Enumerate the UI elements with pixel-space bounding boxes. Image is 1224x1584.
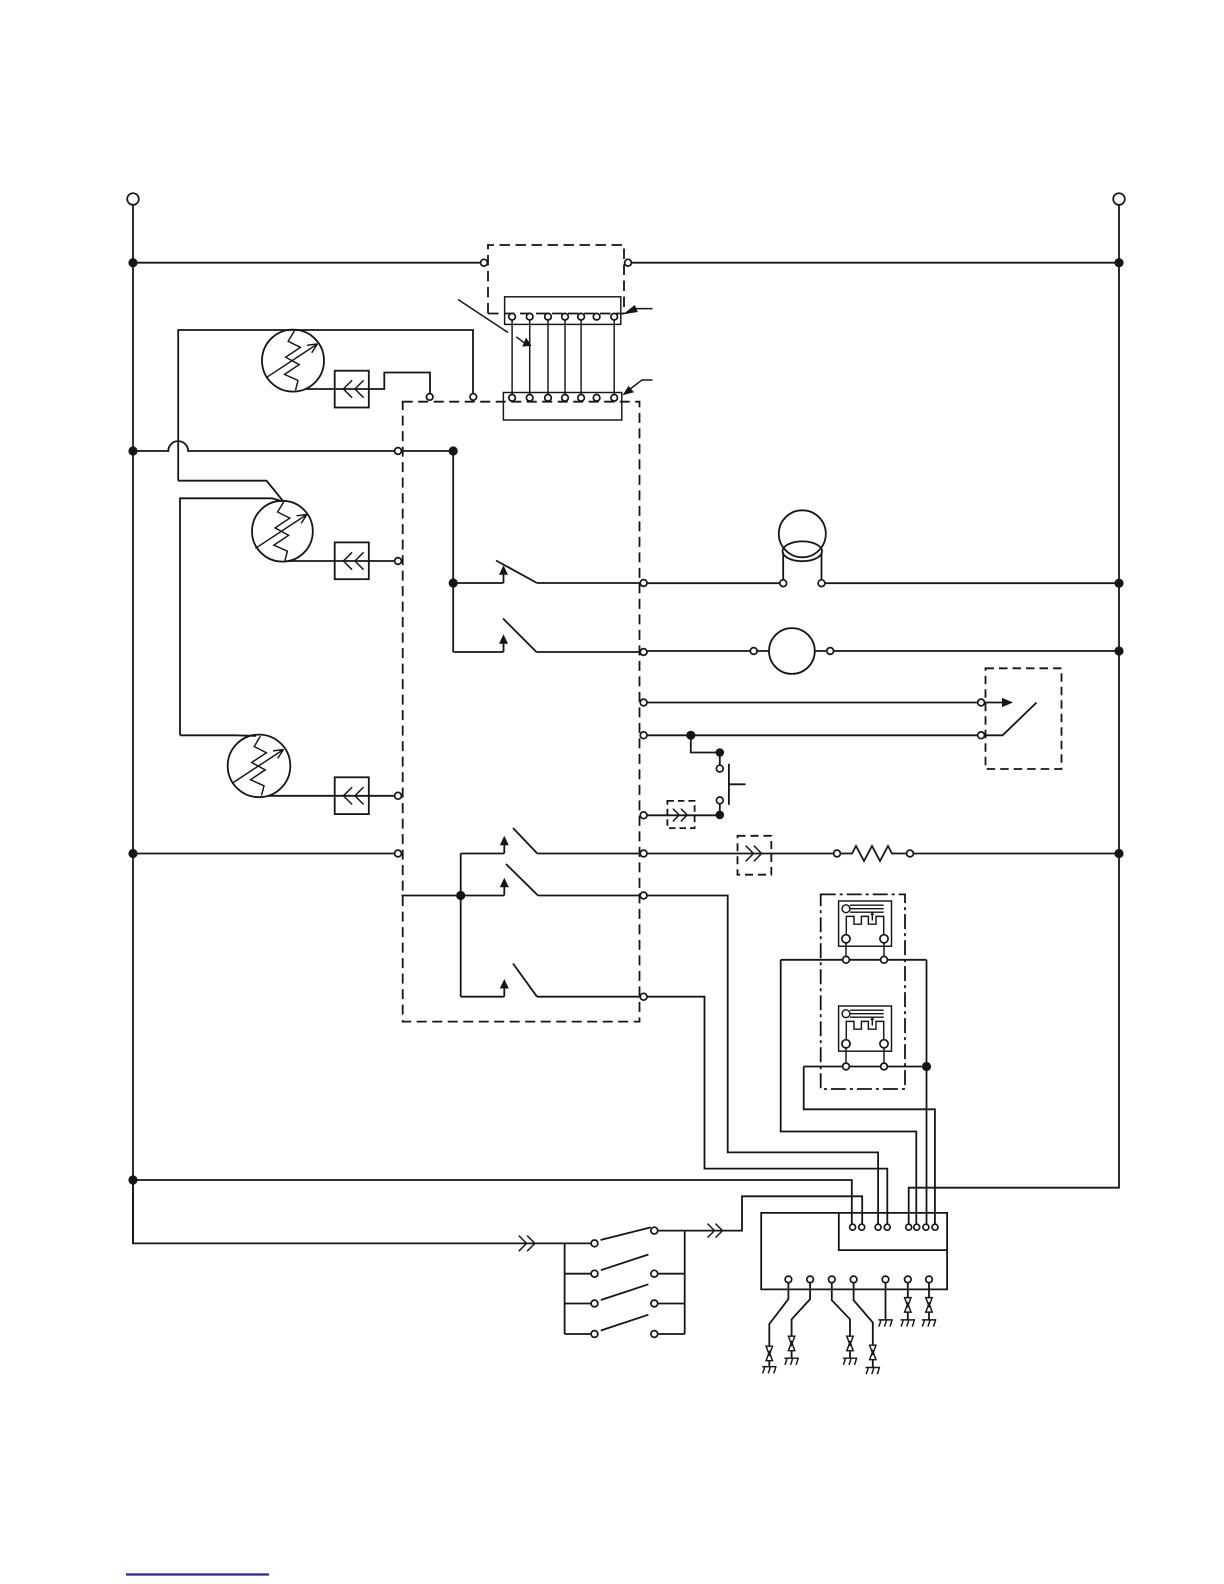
wire: left bus vertical — [132, 205, 134, 1244]
wire: S5 output to terminal u4 — [647, 997, 887, 1224]
terminal into thermostat box (TH2) — [395, 558, 402, 565]
node: right bus junction motor row — [1114, 646, 1123, 655]
terminal u8 — [932, 1224, 938, 1230]
hyperlink underline (blue) — [126, 1573, 269, 1575]
wire: K3 output to thermostat box — [369, 795, 395, 797]
connector housing CN1 (dashed cover, top) — [488, 245, 624, 314]
resistor R1 — [840, 846, 906, 861]
lower terminal d4 — [850, 1276, 857, 1283]
wire: interconnect pin2 — [529, 320, 531, 394]
lower terminal d7 — [926, 1276, 933, 1283]
terminal u7 — [923, 1224, 929, 1230]
damper box (dashed) — [986, 668, 1062, 769]
lead 4 wire — [854, 1283, 881, 1375]
motor M1 (fan motor) — [750, 628, 833, 674]
wire: interconnect pin3 — [547, 320, 549, 394]
lead 5 wire — [878, 1283, 893, 1327]
heater assembly box (chain line) — [821, 894, 905, 1089]
terminal H2 left — [843, 1063, 850, 1070]
connector block upper (7-pin) — [505, 297, 621, 325]
lower terminal d5 — [882, 1276, 889, 1283]
lead 2 wire — [784, 1283, 810, 1365]
leader arrow (harness pointer) — [516, 337, 531, 347]
lead 7 wire — [922, 1283, 937, 1327]
terminal on dashed cover (right) — [625, 259, 632, 266]
wire: pushbutton branch — [691, 735, 720, 752]
thermal switch S2 — [453, 619, 640, 653]
node: junction lower switches — [456, 891, 465, 900]
node: left bus junction at lower row wire — [128, 849, 137, 858]
thermistor TH3 (sensor circle) — [228, 735, 291, 798]
node: pushbutton top junction — [716, 748, 725, 757]
wire: sensor harness top run — [178, 330, 473, 481]
thermal switch S3 — [461, 828, 641, 854]
thermal switch S4 — [461, 864, 641, 896]
terminal H1 left — [843, 956, 850, 963]
lower terminal d2 — [807, 1276, 814, 1283]
terminal S3 out — [640, 850, 647, 857]
terminal H1 right — [881, 956, 888, 963]
terminal above dashed box (left) — [426, 394, 433, 401]
damper switch arrow — [985, 698, 1014, 707]
lead 1 wire — [762, 1283, 788, 1374]
terminal into thermostat box (main row) — [395, 448, 402, 455]
wire: interconnect pin7 — [613, 320, 615, 394]
connector box K2 (chevron coupler) — [335, 542, 369, 579]
wire: interconnect pin4 — [564, 320, 566, 394]
wire: resistor row left — [647, 853, 834, 855]
wire: resistor to right bus — [913, 853, 1119, 855]
lead 6 wire — [901, 1283, 916, 1327]
terminal S4 out — [640, 892, 647, 899]
node: junction row4 — [686, 731, 695, 740]
terminal S2 out — [640, 649, 647, 656]
thermostat assembly box (large dashed) — [403, 402, 640, 1022]
wire: bottom feed to door switch — [133, 1180, 591, 1243]
terminal R1 (right supply terminal) — [1113, 193, 1125, 205]
wire: K2 output to thermostat box — [369, 560, 395, 562]
pushbutton PB1 — [716, 753, 745, 815]
wire: feed to TH3 — [180, 734, 256, 737]
wire: interconnect pin1 — [511, 320, 513, 394]
wire: motor row — [647, 650, 1119, 652]
wire: TH2 to connector box K2 — [288, 560, 335, 562]
terminal row3 out — [640, 699, 647, 706]
connector box K3 (chevron coupler) — [335, 777, 369, 814]
terminal board TB1 — [761, 1213, 947, 1290]
thermistor TH1 (sensor circle) — [262, 330, 324, 392]
node: right bus junction resistor row — [1114, 849, 1123, 858]
connector box K1 (chevron coupler) — [335, 371, 369, 408]
terminal row4 right — [978, 732, 985, 739]
node: junction main row — [449, 446, 458, 455]
terminal row4 out — [640, 732, 647, 739]
node: pushbutton bottom junction — [716, 811, 725, 820]
door switch bank DS1 — [565, 1227, 685, 1337]
wire: row4 — [647, 734, 978, 736]
wire: buzzer row — [647, 582, 1119, 584]
terminal row3 right — [978, 699, 985, 706]
wire: K1 output to connector pin — [369, 373, 430, 394]
node: left bus junction at top wire — [128, 258, 137, 267]
wire: left bus to thermostat box — [133, 853, 395, 855]
wire: top horizontal (right segment) — [631, 262, 1119, 264]
coupler CN2 (dashed chevron box) — [667, 801, 694, 828]
wire: row3 to damper switch — [647, 702, 978, 704]
wire: H2 left lead to terminal u8 — [804, 1067, 935, 1225]
terminal L1 (left supply terminal) — [127, 193, 139, 205]
terminal u2 — [859, 1224, 865, 1230]
wire: main row with hop over sensor run — [133, 441, 395, 451]
wire: link to thermistor TH2 top — [178, 481, 283, 501]
heater H1 (defrost heater with thermal fuse) — [839, 901, 892, 956]
wire: S4 output to terminal u3 — [647, 896, 878, 1225]
wire: H2 row — [804, 1066, 922, 1068]
wire: bottom bus to terminal u1 — [133, 1180, 852, 1224]
node: right bus junction buzzer row — [1114, 579, 1123, 588]
wire: H1 left riser down to terminal u6 — [781, 960, 917, 1224]
node: junction switch S1 — [449, 578, 458, 587]
wire: top horizontal (left segment) — [133, 262, 481, 264]
wire: TH2 top feed down-link — [180, 498, 283, 735]
pin circles lower row — [509, 395, 618, 402]
wire: TH1 to connector box — [305, 388, 335, 390]
terminal H2 right — [881, 1063, 888, 1070]
wire: main row inside box — [402, 450, 454, 452]
terminal u6 — [914, 1224, 920, 1230]
wire: interconnect pin5 — [580, 320, 582, 394]
wire: row 895 into box — [402, 895, 461, 897]
leader arrow (upper connector, right) — [623, 305, 653, 315]
terminal row5 out — [640, 812, 647, 819]
wire: internal riser upper — [452, 451, 454, 652]
node: right bus junction at top wire — [1114, 258, 1123, 267]
wire: TH3 to connector box K3 — [269, 795, 335, 797]
connector block lower (7-pin) — [503, 393, 621, 421]
lower terminal d3 — [829, 1276, 836, 1283]
terminal into thermostat box (TH3) — [395, 792, 402, 799]
pin circles upper row — [509, 313, 618, 320]
coupler chevrons on switch output — [708, 1224, 723, 1238]
terminal u1 — [850, 1224, 856, 1230]
leader line (connector label, upper-left diagonal) — [458, 300, 508, 333]
thermal switch S5 — [461, 964, 641, 997]
node: left bus junction at row wire — [128, 446, 137, 455]
wire: door switch output to terminal u2 — [685, 1196, 863, 1230]
terminal u4 — [884, 1224, 890, 1230]
heater H2 (defrost heater with thermal fuse) — [839, 1006, 892, 1063]
terminal resistor left — [834, 850, 841, 857]
terminal u5 — [906, 1224, 912, 1230]
terminal above dashed box (right) — [470, 394, 477, 401]
terminal on dashed cover (left) — [481, 259, 488, 266]
terminal u3 — [875, 1224, 881, 1230]
thermal switch S1 — [453, 561, 640, 584]
terminal resistor right — [907, 850, 914, 857]
wire: internal riser lower — [460, 854, 462, 997]
wire: H1 right riser down to terminal u7 — [926, 960, 928, 1224]
wire: H1 row to risers — [781, 959, 927, 961]
node: H2 right junction — [922, 1062, 931, 1071]
wire: row5 through coupler CN2 — [647, 814, 720, 816]
node: left bus junction at bottom bus — [128, 1175, 137, 1184]
buzzer BZ1 (alarm) — [779, 510, 826, 586]
coupler CN3 (dashed chevron box) — [738, 836, 772, 875]
wire: right bus vertical, then left to terminal board — [909, 205, 1119, 1224]
terminal S1 out — [640, 580, 647, 587]
damper switch blade — [985, 703, 1037, 736]
lower terminal d1 — [785, 1276, 792, 1283]
lead 3 wire — [832, 1283, 858, 1365]
leader arrow (lower connector, right) — [623, 380, 653, 395]
thermistor TH2 (sensor circle) — [252, 501, 313, 562]
coupler chevrons on bottom feed — [519, 1236, 535, 1252]
terminal S5 out — [640, 993, 647, 1000]
terminal into thermostat box (row 853) — [395, 850, 402, 857]
lower terminal d6 — [905, 1276, 912, 1283]
